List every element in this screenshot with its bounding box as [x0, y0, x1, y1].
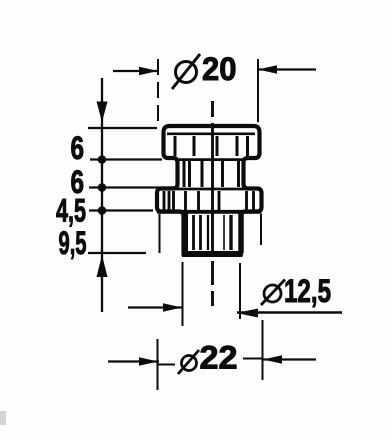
stem hatching	[194, 215, 232, 250]
dia22 right stub	[243, 358, 262, 360]
dia20 left extension line	[157, 59, 159, 122]
chain dot 1	[98, 155, 107, 164]
dia20 left arrow	[139, 67, 158, 75]
cap inner top line	[167, 133, 255, 136]
stem bottom edge (thick)	[182, 251, 243, 257]
dia12.5 left extension line	[182, 262, 184, 326]
scan smudge bottom-left	[0, 411, 6, 425]
dia20 symbol	[172, 54, 200, 89]
dia22 left dimension line	[108, 360, 159, 362]
chain dot 2	[98, 183, 107, 192]
chain top arrow (down)	[97, 102, 108, 123]
chain bottom arrow (up)	[97, 255, 108, 277]
chain ref line top	[88, 127, 157, 129]
dia12.5 right extension line	[239, 263, 241, 319]
dia12.5 symbol	[261, 280, 285, 306]
vertical centerline	[211, 101, 214, 306]
step line cap/neck	[177, 158, 244, 161]
dia12.5 left dimension line	[128, 306, 183, 308]
dia22 left extension line lower	[157, 339, 159, 390]
step line flange/stem	[157, 210, 262, 214]
step line neck/flange	[157, 188, 262, 191]
svg-text:12,5: 12,5	[284, 273, 331, 309]
neck hatching	[184, 161, 239, 187]
chain ref line 3	[89, 186, 174, 188]
dia20 right arrow	[258, 65, 277, 73]
dia22 right arrow	[263, 355, 282, 363]
stem left edge (thick)	[182, 212, 188, 253]
dia20 left dimension line	[113, 70, 159, 72]
svg-text:6: 6	[71, 130, 85, 166]
dia22 symbol	[178, 350, 199, 374]
dia12.5 leader arrow	[237, 309, 259, 318]
dia22 right extension line upper	[260, 214, 262, 245]
cap hatching	[175, 136, 248, 156]
dia22 left extension line upper	[159, 214, 161, 253]
svg-text:20: 20	[202, 51, 237, 87]
svg-text:4,5: 4,5	[56, 193, 86, 229]
svg-text:22: 22	[200, 340, 238, 376]
left chain dimension line	[101, 78, 103, 312]
svg-text:9,5: 9,5	[59, 225, 87, 261]
dia22 right extension line lower	[262, 320, 264, 380]
dia12.5 leader line	[237, 311, 342, 314]
part outline (stepped bushing cross-section)	[157, 126, 262, 254]
flange hatching	[164, 191, 254, 210]
chain dot 3	[98, 206, 107, 215]
dia22 right dimension line	[263, 358, 317, 360]
chain ref line 4	[89, 209, 153, 211]
dia20 right dimension line	[258, 68, 317, 70]
dia20 right extension line	[257, 59, 259, 122]
chain ref line 2	[90, 158, 162, 160]
dia22 left arrow	[139, 357, 158, 365]
dia12.5 left arrow	[163, 303, 182, 311]
stem right edge (thick)	[238, 212, 244, 253]
chain ref line bottom	[88, 252, 146, 254]
dia22 left stub	[158, 364, 175, 366]
